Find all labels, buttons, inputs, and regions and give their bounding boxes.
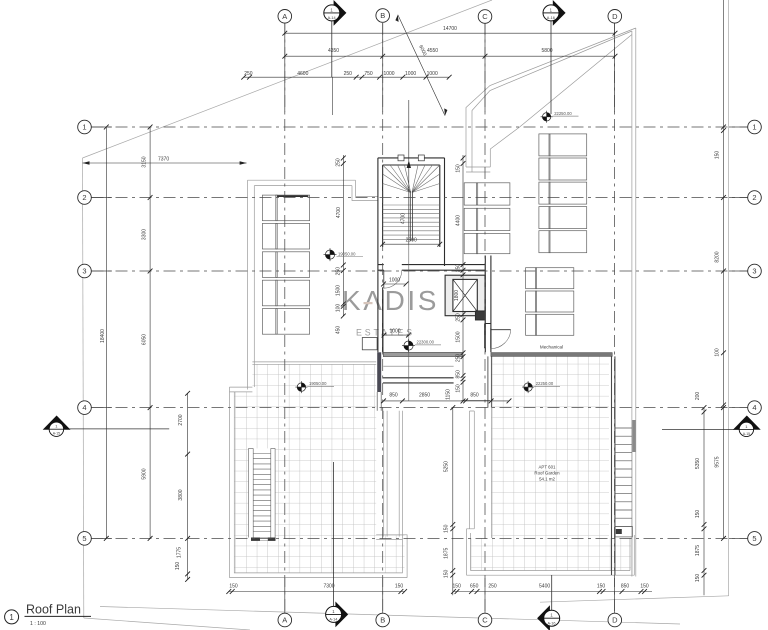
bubble 5 left bbox=[78, 532, 92, 546]
dim 6000 slant line bbox=[398, 15, 445, 116]
stair landing box bbox=[615, 526, 632, 537]
svg-text:5400: 5400 bbox=[539, 583, 550, 589]
svg-text:4700: 4700 bbox=[336, 207, 342, 218]
svg-text:1800: 1800 bbox=[454, 290, 460, 301]
svg-text:2700: 2700 bbox=[178, 414, 184, 425]
svg-text:850: 850 bbox=[621, 583, 630, 589]
section line A-14 bottom stub bbox=[333, 462, 335, 606]
dim 2500 line bbox=[383, 243, 440, 245]
stair center rail bbox=[410, 191, 412, 241]
svg-text:5: 5 bbox=[752, 534, 756, 543]
bubble 3 right bbox=[748, 264, 762, 278]
boundary vertical left bbox=[83, 158, 84, 618]
grid line 5 bbox=[92, 537, 748, 539]
dim row3 line bbox=[244, 76, 450, 78]
ticks top rows bbox=[282, 31, 287, 36]
bubble 1 left bbox=[78, 120, 92, 134]
svg-text:150: 150 bbox=[695, 574, 701, 583]
corridor left wall lower bbox=[382, 290, 384, 352]
svg-text:850: 850 bbox=[456, 370, 462, 379]
dim 7370 line bbox=[83, 162, 247, 164]
mechanical room left wall bbox=[485, 324, 491, 349]
marker A-15 right bbox=[734, 416, 760, 437]
ac unit M2 bbox=[464, 208, 478, 230]
AC units column left bbox=[262, 195, 309, 334]
gray wall bar right of stair top bbox=[632, 420, 635, 452]
svg-text:C: C bbox=[482, 616, 488, 625]
ticks left columns bbox=[104, 125, 109, 130]
grid line B bbox=[382, 23, 384, 613]
section line A-14 top stub bbox=[331, 21, 333, 77]
ac unit M3 bbox=[464, 233, 478, 253]
svg-text:22250.00: 22250.00 bbox=[554, 111, 572, 116]
svg-text:150: 150 bbox=[444, 524, 450, 533]
svg-text:150: 150 bbox=[597, 583, 606, 589]
left garden parapet outline outer bbox=[230, 387, 408, 577]
dim col 5250 line bbox=[452, 408, 454, 596]
dim 7370 arrows bbox=[83, 15, 448, 168]
grid line 1 bbox=[92, 126, 748, 128]
marker A-16 top bbox=[543, 0, 566, 26]
svg-text:ESTATES: ESTATES bbox=[356, 328, 415, 338]
stair arrow line bbox=[408, 100, 410, 244]
svg-text:150: 150 bbox=[444, 570, 450, 579]
bubble 2 right bbox=[748, 191, 762, 205]
svg-text:250: 250 bbox=[344, 71, 353, 77]
svg-text:650: 650 bbox=[470, 583, 479, 589]
svg-text:5900: 5900 bbox=[141, 468, 147, 479]
svg-text:1875: 1875 bbox=[444, 548, 450, 559]
svg-text:3: 3 bbox=[752, 267, 756, 276]
svg-text:100: 100 bbox=[715, 348, 721, 357]
dim ref line below stair bbox=[408, 244, 410, 401]
bubble C top bbox=[478, 10, 492, 24]
ticks bottom-left bbox=[226, 589, 231, 594]
upper-left roof parapet left bbox=[248, 180, 255, 389]
svg-text:1000: 1000 bbox=[389, 278, 400, 284]
svg-text:200: 200 bbox=[695, 392, 701, 401]
AC units column right bbox=[539, 134, 587, 253]
ac unit R2 bbox=[539, 158, 550, 180]
ac unit L2 bbox=[262, 223, 277, 249]
bubble 4 right bbox=[748, 401, 762, 415]
boundary vertical right outer bbox=[635, 28, 637, 577]
section line A-16 bottom stub bbox=[551, 575, 553, 610]
corridor mid line bbox=[383, 365, 453, 367]
stair core inner wall bbox=[383, 165, 440, 352]
svg-text:250: 250 bbox=[244, 71, 253, 77]
wall pier below elevator bbox=[476, 311, 486, 320]
benchmark 22250 right garden bbox=[522, 381, 560, 393]
parapet diagonal outer bbox=[466, 28, 636, 167]
dark wall bar left of corridor bbox=[377, 352, 381, 392]
svg-text:3800: 3800 bbox=[178, 489, 184, 500]
right garden bottom parapet bbox=[467, 535, 635, 575]
svg-text:KΛDIS: KΛDIS bbox=[342, 285, 439, 316]
svg-text:1875: 1875 bbox=[695, 545, 701, 556]
svg-text:250: 250 bbox=[456, 313, 462, 322]
ticks col x463 bbox=[461, 156, 466, 161]
stair direction arrow head bbox=[407, 161, 411, 169]
right garden left parapet bbox=[470, 411, 475, 529]
grid line D bbox=[614, 23, 616, 613]
svg-text:A: A bbox=[282, 12, 287, 21]
section line A-14 below dims bbox=[332, 77, 334, 115]
garden stair white base bbox=[249, 448, 276, 537]
ticks col far right bbox=[721, 125, 726, 130]
title underline bbox=[25, 615, 92, 617]
ac unit R1 bbox=[539, 134, 550, 156]
svg-text:A: A bbox=[282, 616, 287, 625]
svg-text:1500: 1500 bbox=[336, 285, 342, 296]
slab band right garden top edge bbox=[491, 353, 612, 357]
svg-text:3: 3 bbox=[82, 267, 86, 276]
site parapet top-right (faint double lines) bbox=[230, 28, 636, 578]
AC units column bottom (mechanical) bbox=[526, 268, 574, 336]
ticks corridor dims bbox=[381, 399, 386, 404]
dim 1000 lower line bbox=[384, 334, 409, 336]
stair side rails bbox=[631, 420, 633, 575]
garden west wall dark segment bbox=[488, 356, 492, 407]
svg-text:150: 150 bbox=[456, 164, 462, 173]
bubble 1 right bbox=[748, 120, 762, 134]
svg-text:850: 850 bbox=[389, 393, 398, 399]
svg-text:D: D bbox=[612, 616, 618, 625]
shaft box at garden corner bbox=[362, 338, 377, 350]
bubble C bottom bbox=[478, 613, 492, 627]
svg-text:19050.00: 19050.00 bbox=[309, 381, 327, 386]
boundary right faint vertical bbox=[728, 0, 730, 596]
svg-text:Roof Plan: Roof Plan bbox=[26, 603, 81, 617]
upper-left roof parapet right jog bbox=[352, 180, 378, 200]
garden stair rails bbox=[249, 448, 276, 537]
dim 18400 line bbox=[105, 127, 107, 538]
svg-text:4350: 4350 bbox=[328, 48, 339, 54]
boundary bottom long bbox=[100, 607, 680, 625]
marker A-14 bottom bbox=[326, 602, 349, 628]
ac unit L5 bbox=[262, 309, 277, 335]
svg-text:A-14: A-14 bbox=[328, 16, 336, 20]
ticks center col bbox=[341, 156, 346, 161]
benchmark 22250 top bbox=[541, 111, 579, 123]
marker A-15 left bbox=[43, 416, 69, 437]
svg-text:Mechanical: Mechanical bbox=[540, 345, 563, 350]
stair treads bbox=[383, 165, 440, 241]
ticks bottom-right bbox=[451, 589, 456, 594]
marker A-14 top bbox=[324, 0, 347, 26]
svg-text:4700: 4700 bbox=[401, 213, 407, 224]
dim 850 gap line bbox=[461, 400, 490, 402]
bubble B bottom bbox=[376, 613, 390, 627]
parapet diagonal middle bbox=[472, 31, 632, 172]
svg-text:9575: 9575 bbox=[715, 456, 721, 467]
grid line A bbox=[284, 23, 286, 613]
stair bottom dark block bbox=[616, 529, 622, 534]
corridor right wall below elevator bbox=[485, 256, 491, 353]
ticks col right 5350 bbox=[702, 405, 707, 410]
svg-text:18400: 18400 bbox=[100, 329, 106, 343]
dim corridor 850-2850 line bbox=[384, 400, 510, 402]
stair winder fan bbox=[383, 165, 440, 193]
svg-text:5250: 5250 bbox=[444, 461, 450, 472]
watermark KADIS bbox=[342, 285, 439, 338]
svg-text:1775: 1775 bbox=[177, 547, 183, 558]
parapet diagonal inner bbox=[490, 35, 632, 168]
dim 14700 line bbox=[285, 32, 615, 34]
svg-text:250: 250 bbox=[336, 267, 342, 276]
svg-text:250: 250 bbox=[456, 354, 462, 363]
dim 2700/3800 line bbox=[187, 393, 189, 579]
svg-text:19050.00: 19050.00 bbox=[338, 251, 356, 256]
elevator shaft bbox=[453, 279, 477, 311]
svg-text:150: 150 bbox=[456, 384, 462, 393]
svg-text:APT 601: APT 601 bbox=[538, 465, 556, 470]
svg-text:1150: 1150 bbox=[446, 389, 452, 400]
ac unit B2 bbox=[526, 291, 537, 312]
ac unit R5 bbox=[539, 231, 550, 253]
svg-text:250: 250 bbox=[488, 583, 497, 589]
dim 3150 column line bbox=[149, 127, 151, 538]
svg-text:1: 1 bbox=[9, 613, 14, 622]
grid line 2 bbox=[92, 197, 748, 199]
svg-text:1000: 1000 bbox=[427, 71, 438, 77]
dim 1000 upper line bbox=[384, 283, 407, 285]
grid line 3 bbox=[92, 270, 748, 272]
svg-text:1 : 100: 1 : 100 bbox=[30, 621, 46, 627]
svg-text:C: C bbox=[482, 12, 488, 21]
bubble A top bbox=[278, 9, 292, 23]
svg-text:7370: 7370 bbox=[158, 156, 169, 162]
svg-text:14700: 14700 bbox=[443, 26, 457, 32]
right garden bottom-left step bbox=[467, 529, 475, 575]
bubble 3 left bbox=[78, 264, 92, 278]
ac unit L4 bbox=[262, 280, 277, 306]
section line A-15 right bbox=[662, 428, 753, 430]
dim bottom-left line bbox=[229, 591, 405, 593]
left garden right parapet bbox=[384, 411, 403, 540]
right garden right parapet bbox=[612, 356, 615, 575]
svg-text:250: 250 bbox=[456, 264, 462, 273]
ticks col 5250 bbox=[450, 405, 455, 410]
svg-text:4550: 4550 bbox=[427, 48, 438, 54]
dim col x463 line bbox=[462, 155, 464, 401]
left garden top edge bbox=[230, 362, 377, 392]
marker A-16 bottom bbox=[537, 605, 560, 630]
dim col 5350 right line bbox=[703, 408, 705, 596]
bubble D bottom bbox=[608, 613, 622, 627]
svg-text:1500: 1500 bbox=[456, 331, 462, 342]
left garden stair bbox=[249, 448, 276, 541]
dim 4350/4550/5800 line bbox=[285, 55, 615, 57]
svg-text:A-15: A-15 bbox=[53, 432, 60, 436]
svg-text:A-14: A-14 bbox=[329, 618, 337, 622]
boundary vertical right inner bbox=[631, 31, 633, 577]
svg-text:1000: 1000 bbox=[383, 71, 394, 77]
benchmark 22300 corridor bbox=[402, 339, 441, 352]
svg-text:2: 2 bbox=[752, 193, 756, 202]
svg-text:750: 750 bbox=[364, 71, 373, 77]
ac unit B1 bbox=[526, 268, 537, 289]
slab band over corridor bbox=[383, 352, 462, 356]
dimension ticks bbox=[104, 31, 726, 594]
boundary diagonal top-left bbox=[83, 0, 493, 158]
garden stair treads bbox=[253, 454, 271, 532]
svg-text:100: 100 bbox=[336, 304, 342, 313]
parapet step right of stair bbox=[466, 167, 490, 172]
svg-text:8200: 8200 bbox=[715, 251, 721, 262]
svg-text:22250.00: 22250.00 bbox=[536, 381, 554, 386]
ac unit B3 bbox=[526, 314, 537, 335]
stair bottom wall bbox=[378, 265, 485, 271]
bubble D top bbox=[608, 9, 622, 23]
stair treads bbox=[615, 428, 632, 526]
svg-text:5: 5 bbox=[82, 534, 86, 543]
svg-text:A-15: A-15 bbox=[743, 432, 750, 436]
grid line 4 bbox=[92, 407, 748, 409]
ac unit M1 bbox=[464, 183, 478, 205]
AC units column mid (right of stair) bbox=[464, 183, 510, 254]
rotated dimension texts bbox=[100, 44, 721, 582]
bubble A bottom bbox=[278, 613, 292, 627]
stair top landing blocks bbox=[398, 155, 424, 161]
svg-text:150: 150 bbox=[695, 510, 701, 519]
svg-text:1000: 1000 bbox=[389, 329, 400, 335]
garden stair bottom band bbox=[251, 538, 276, 541]
dim col 9575 far right line bbox=[723, 0, 725, 538]
ac unit L1 bbox=[262, 195, 277, 221]
bubble B top bbox=[376, 9, 390, 23]
right garden left hatch edge bbox=[490, 408, 492, 538]
svg-text:2850: 2850 bbox=[419, 393, 430, 399]
bubble 4 left bbox=[78, 401, 92, 415]
svg-text:150: 150 bbox=[175, 562, 181, 571]
section line A-16 top stub bbox=[550, 21, 552, 114]
svg-text:4600: 4600 bbox=[297, 71, 308, 77]
svg-text:4400: 4400 bbox=[456, 215, 462, 226]
svg-text:1: 1 bbox=[82, 123, 86, 132]
svg-text:1: 1 bbox=[752, 123, 756, 132]
bubble 2 left bbox=[78, 191, 92, 205]
title bubble bbox=[5, 610, 19, 624]
ac unit R4 bbox=[539, 207, 550, 229]
svg-text:2: 2 bbox=[82, 193, 86, 202]
elevator X bbox=[453, 279, 477, 311]
svg-text:150: 150 bbox=[395, 583, 404, 589]
svg-text:Roof Garden: Roof Garden bbox=[534, 471, 560, 476]
bubble 5 right bbox=[748, 532, 762, 546]
svg-text:150: 150 bbox=[229, 583, 238, 589]
boundary bottom right segment bbox=[540, 596, 729, 602]
benchmark 19050 left garden bbox=[295, 381, 334, 393]
svg-text:250: 250 bbox=[336, 158, 342, 167]
svg-text:3150: 3150 bbox=[141, 156, 147, 167]
svg-text:150: 150 bbox=[453, 583, 462, 589]
svg-text:B: B bbox=[380, 11, 385, 20]
svg-text:5800: 5800 bbox=[541, 48, 552, 54]
elevator U1 outer wall bbox=[445, 275, 485, 316]
svg-text:A-16: A-16 bbox=[547, 16, 555, 20]
svg-text:150: 150 bbox=[715, 151, 721, 160]
mechanical door arc bbox=[491, 330, 511, 349]
upper-left roof parapet top bbox=[248, 180, 356, 185]
boundary bottom short bbox=[84, 618, 250, 630]
dark lintel over unit L1 bbox=[277, 195, 308, 197]
svg-text:5350: 5350 bbox=[695, 458, 701, 469]
svg-text:3300: 3300 bbox=[141, 229, 147, 240]
svg-text:B: B bbox=[380, 616, 385, 625]
svg-text:150: 150 bbox=[640, 583, 649, 589]
svg-text:22300.00: 22300.00 bbox=[417, 340, 435, 345]
svg-text:1000: 1000 bbox=[405, 71, 416, 77]
roof garden hatch right bbox=[471, 356, 632, 570]
mechanical door leaf bbox=[491, 329, 511, 331]
ac unit L3 bbox=[262, 252, 277, 278]
svg-text:450: 450 bbox=[336, 326, 342, 335]
svg-text:4: 4 bbox=[82, 403, 86, 412]
stair core outer wall bbox=[378, 158, 445, 352]
benchmark 19050 upper bbox=[324, 248, 364, 261]
svg-text:850: 850 bbox=[470, 393, 479, 399]
dim bottom-right line bbox=[454, 591, 653, 593]
roof garden hatch left bbox=[234, 364, 404, 573]
svg-text:6050: 6050 bbox=[141, 334, 147, 345]
grid line C bbox=[484, 23, 486, 613]
svg-text:A-16: A-16 bbox=[547, 621, 555, 625]
svg-text:D: D bbox=[612, 12, 618, 21]
ac unit R3 bbox=[539, 182, 550, 204]
svg-text:2500: 2500 bbox=[406, 238, 417, 244]
svg-text:7300: 7300 bbox=[323, 583, 334, 589]
svg-text:4: 4 bbox=[752, 403, 756, 412]
solid grid stubs bbox=[91, 23, 747, 613]
svg-text:54.1 m2: 54.1 m2 bbox=[539, 477, 555, 482]
lower corridor south wall bbox=[383, 378, 454, 383]
stair exit door leaf bbox=[383, 270, 385, 288]
stair exit door arc bbox=[384, 270, 402, 288]
right external stair bbox=[615, 420, 635, 575]
section line A-15 left bbox=[56, 428, 169, 430]
dim col x343 line bbox=[342, 155, 344, 316]
